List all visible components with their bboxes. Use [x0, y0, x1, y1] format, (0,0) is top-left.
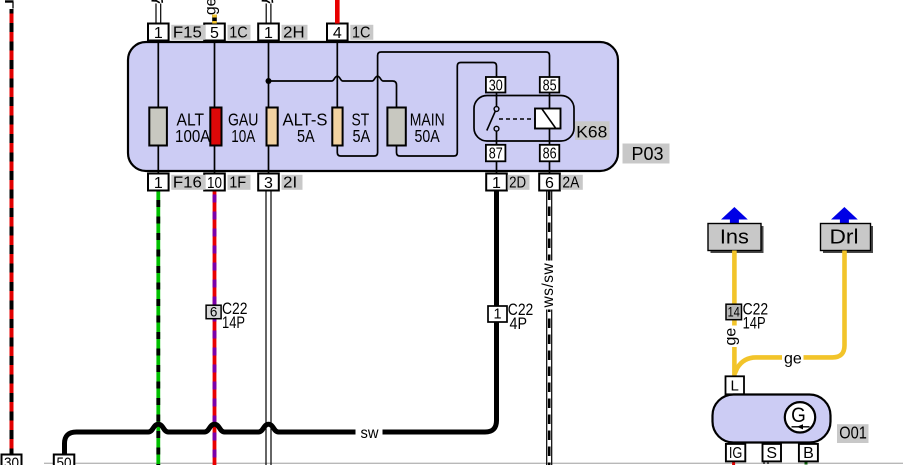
- svg-text:K68: K68: [576, 123, 607, 142]
- svg-text:5: 5: [210, 25, 219, 42]
- svg-text:O01: O01: [839, 422, 867, 442]
- svg-text:P03: P03: [632, 144, 664, 164]
- svg-text:F15: F15: [173, 25, 202, 42]
- svg-text:ws/sw: ws/sw: [540, 263, 557, 309]
- svg-text:1C: 1C: [352, 25, 371, 42]
- svg-text:6: 6: [545, 175, 554, 192]
- svg-text:6: 6: [210, 304, 218, 319]
- svg-text:ge: ge: [784, 351, 802, 368]
- svg-text:50: 50: [57, 455, 72, 465]
- svg-text:86: 86: [543, 146, 557, 163]
- svg-text:100A: 100A: [175, 126, 211, 146]
- svg-text:87: 87: [489, 146, 503, 163]
- svg-text:4: 4: [333, 25, 342, 42]
- svg-text:30: 30: [489, 77, 503, 94]
- svg-text:sw: sw: [361, 425, 380, 442]
- svg-text:Ins: Ins: [720, 226, 749, 249]
- svg-text:10: 10: [207, 175, 222, 192]
- svg-text:1: 1: [154, 25, 163, 42]
- svg-text:Drl: Drl: [830, 226, 859, 249]
- svg-text:5A: 5A: [297, 126, 315, 146]
- svg-text:3: 3: [264, 175, 273, 192]
- svg-text:14: 14: [727, 305, 740, 320]
- svg-text:L: L: [731, 378, 739, 395]
- svg-text:ge: ge: [723, 328, 740, 346]
- svg-text:85: 85: [543, 77, 557, 94]
- svg-text:2D: 2D: [509, 175, 526, 192]
- svg-text:1: 1: [264, 25, 273, 42]
- svg-text:10A: 10A: [231, 126, 255, 146]
- svg-text:G: G: [791, 403, 806, 427]
- svg-text:2H: 2H: [283, 25, 305, 42]
- svg-text:50A: 50A: [415, 126, 440, 146]
- svg-text:1: 1: [493, 307, 501, 323]
- svg-text:4P: 4P: [510, 315, 528, 333]
- svg-text:2A: 2A: [562, 175, 579, 192]
- svg-text:IG: IG: [729, 445, 743, 462]
- svg-text:1C: 1C: [229, 25, 248, 42]
- svg-text:1: 1: [154, 175, 163, 192]
- svg-text:14P: 14P: [743, 314, 766, 332]
- svg-text:B: B: [803, 445, 814, 462]
- svg-text:5A: 5A: [352, 126, 370, 146]
- svg-text:ge: ge: [203, 0, 220, 15]
- svg-text:S: S: [766, 445, 777, 462]
- svg-text:F16: F16: [173, 175, 202, 192]
- svg-text:2I: 2I: [283, 175, 297, 192]
- svg-text:1: 1: [492, 175, 501, 192]
- svg-text:1F: 1F: [229, 175, 246, 192]
- svg-text:30: 30: [4, 455, 19, 465]
- svg-text:14P: 14P: [222, 314, 245, 332]
